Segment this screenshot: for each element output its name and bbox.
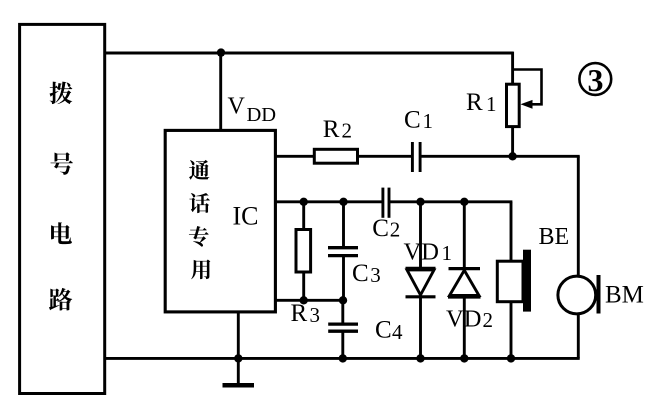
wire BE top <box>510 202 513 261</box>
IC label char 通 <box>189 160 209 180</box>
capacitor C2 <box>381 188 384 218</box>
earpiece BE body <box>497 261 523 302</box>
wire VD2 top <box>463 202 466 269</box>
dialer label char 电 <box>51 222 72 244</box>
svg-text:IC: IC <box>233 202 259 231</box>
node VD2 bottom <box>460 354 468 362</box>
wire VDD to IC top pin <box>219 53 222 130</box>
svg-text:R: R <box>466 89 483 116</box>
svg-text:BE: BE <box>539 224 570 250</box>
dialer label char 号 <box>50 152 72 174</box>
node ground junction <box>234 354 242 362</box>
resistor R3 <box>296 230 311 273</box>
diode VD2 <box>449 267 481 270</box>
svg-text:BM: BM <box>605 282 644 309</box>
ground <box>237 358 240 383</box>
dialer label char 拨 <box>50 82 73 105</box>
wire BE bottom <box>510 302 513 359</box>
svg-text:3: 3 <box>588 62 604 98</box>
svg-text:VD: VD <box>404 239 439 266</box>
svg-text:4: 4 <box>392 320 403 344</box>
node BE bottom <box>507 354 515 362</box>
svg-text:C: C <box>352 260 369 287</box>
node VD1 top <box>416 198 424 206</box>
wire R1 bottom <box>511 127 514 157</box>
wire R3 top <box>302 202 305 230</box>
dialer circuit box <box>20 24 105 393</box>
svg-text:C: C <box>404 107 421 134</box>
node VDD junction <box>217 48 225 56</box>
wire C2 to BE corner <box>390 200 512 203</box>
node R3 top <box>300 198 308 206</box>
node R3 bottom <box>300 296 308 304</box>
node VD2 top <box>460 198 468 206</box>
svg-text:3: 3 <box>370 263 381 287</box>
svg-text:1: 1 <box>442 241 453 265</box>
svg-text:C: C <box>372 215 389 242</box>
wire C3 bottom <box>342 257 345 301</box>
IC label char 用 <box>191 259 210 279</box>
wire VD2 bottom <box>463 297 466 358</box>
IC label char 话 <box>189 193 210 213</box>
resistor R1 (adjustable) <box>507 84 520 126</box>
svg-text:2: 2 <box>390 218 401 242</box>
capacitor C4 <box>328 322 358 325</box>
capacitor C3 <box>328 246 358 249</box>
wire R2 to C1 <box>358 155 412 158</box>
microphone BM <box>558 276 596 314</box>
wire C1 to right column <box>421 155 579 158</box>
wire top supply bus <box>105 52 513 55</box>
wire IC bottom pin <box>237 312 240 359</box>
wire C3 top <box>342 202 345 247</box>
wire top bus down to R1 <box>511 52 514 85</box>
svg-text:C: C <box>375 317 392 344</box>
earpiece BE plate <box>523 250 531 312</box>
R1 wiper arrow <box>513 70 542 105</box>
wire BM bottom <box>577 314 580 359</box>
svg-text:DD: DD <box>247 104 277 126</box>
resistor R2 <box>314 149 357 163</box>
dialer label char 路 <box>49 288 72 311</box>
IC U1 speech-dedicated IC box <box>165 130 275 312</box>
svg-text:1: 1 <box>423 109 434 133</box>
wire IC pin 1 to R2 <box>275 155 315 158</box>
node C3/C4 junction <box>339 296 347 304</box>
svg-text:2: 2 <box>483 308 494 332</box>
node C3 top <box>339 198 347 206</box>
wire C4 bottom <box>341 332 344 358</box>
wire R3 bottom <box>302 272 305 300</box>
node R1 bottom junction <box>508 152 516 160</box>
wire C4 top <box>341 300 344 323</box>
IC label char 专 <box>189 226 209 247</box>
capacitor C1 <box>411 142 414 172</box>
wire bottom return bus <box>105 357 580 360</box>
svg-text:1: 1 <box>486 92 497 116</box>
wire IC pin 3 to C4 node <box>275 299 343 302</box>
node VD1 bottom <box>416 354 424 362</box>
wire VD1 top <box>419 202 422 267</box>
wire VD1 bottom <box>419 297 422 359</box>
diode VD1 <box>406 267 436 270</box>
svg-text:3: 3 <box>310 303 321 327</box>
svg-text:V: V <box>228 94 246 120</box>
svg-text:R: R <box>323 116 340 143</box>
node C4 bottom <box>339 354 347 362</box>
wire BM top <box>577 156 580 277</box>
svg-text:2: 2 <box>342 119 353 143</box>
wire IC pin 2 to C2 <box>275 200 382 203</box>
figure number 3 circled <box>579 63 611 95</box>
